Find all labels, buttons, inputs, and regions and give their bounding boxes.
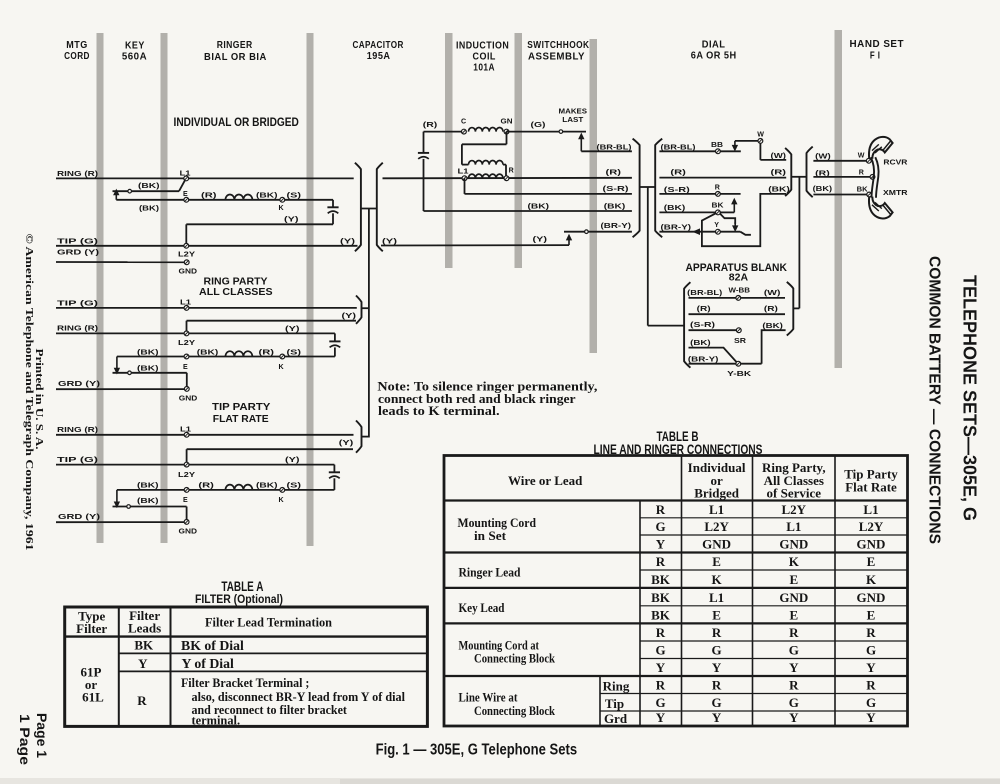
svg-text:Page 1: Page 1: [34, 713, 49, 759]
terminal Y-BK apparatus: [727, 361, 762, 378]
svg-text:BK: BK: [857, 185, 869, 193]
svg-text:R: R: [656, 678, 666, 693]
wire TIP circuit 2: [56, 307, 357, 309]
svg-text:terminal.: terminal.: [192, 713, 241, 728]
svg-text:INDIVIDUAL OR BRIDGED: INDIVIDUAL OR BRIDGED: [174, 117, 299, 129]
svg-text:(BR-BL): (BR-BL): [597, 143, 633, 152]
terminal BB dial: [711, 141, 723, 154]
svg-text:(BK): (BK): [528, 201, 550, 210]
table B header texts: [508, 460, 898, 500]
wire key black lead upper circuit 1: [113, 181, 185, 192]
svg-text:R: R: [137, 693, 147, 708]
wire (S-R) lead: [465, 193, 632, 195]
wire (S-R) dial: [659, 193, 740, 195]
svg-text:(R): (R): [670, 168, 686, 177]
dial right bracket: [785, 148, 791, 196]
svg-text:BK: BK: [651, 590, 671, 605]
table A row lines: [65, 637, 428, 672]
capacitor lead and ringer capacitor circuit 1: [327, 200, 338, 225]
note text: [377, 379, 597, 419]
wire E to K circuit 2: [117, 356, 335, 358]
terminal K with (S) circuit 2: [279, 347, 302, 371]
svg-text:Y: Y: [138, 656, 148, 671]
apparatus blank left bracket: [684, 282, 690, 368]
wire (BR-BL) dial: [659, 150, 740, 152]
svg-text:R: R: [656, 502, 666, 517]
svg-text:(BK): (BK): [137, 347, 159, 356]
wire GRD circuit 2: [56, 388, 187, 390]
ringer coil circuit 2: [225, 351, 252, 356]
svg-text:Y: Y: [866, 710, 876, 725]
svg-text:RING PARTY: RING PARTY: [204, 277, 269, 288]
key moving contact arrow circuit 3: [116, 490, 118, 504]
svg-text:CAPACITOR: CAPACITOR: [352, 40, 403, 51]
svg-text:R: R: [866, 678, 876, 693]
svg-text:(R): (R): [201, 191, 217, 200]
svg-text:(R): (R): [423, 120, 438, 129]
switchhook moving contact arrow on Y lead: [568, 238, 570, 245]
svg-text:MTG: MTG: [66, 40, 87, 51]
handset handle: [871, 157, 879, 198]
table B column lines: [600, 456, 835, 727]
svg-text:Wire or Lead: Wire or Lead: [508, 473, 583, 488]
svg-text:Leads: Leads: [128, 620, 161, 635]
svg-text:(BK): (BK): [813, 184, 833, 193]
svg-text:E: E: [183, 363, 188, 371]
terminal W dial: [757, 131, 764, 144]
svg-text:RCVR: RCVR: [883, 158, 908, 167]
svg-text:L1: L1: [786, 519, 801, 534]
svg-text:E: E: [183, 190, 188, 198]
svg-text:GND: GND: [779, 590, 808, 605]
svg-text:6A OR 5H: 6A OR 5H: [691, 50, 737, 61]
capacitor 195A common bar and riser: [361, 209, 377, 438]
svg-text:(R): (R): [764, 304, 779, 313]
svg-text:SR: SR: [734, 337, 746, 345]
svg-text:SWITCHHOOK: SWITCHHOOK: [527, 40, 589, 51]
table A titles: [195, 579, 283, 606]
svg-text:RING (R): RING (R): [57, 324, 99, 333]
terminal L2Y circuit 3: [178, 462, 195, 479]
svg-text:(BK): (BK): [137, 363, 159, 372]
svg-text:Y: Y: [714, 221, 719, 229]
svg-text:61L: 61L: [82, 690, 104, 705]
svg-text:GND: GND: [702, 537, 731, 552]
svg-text:R: R: [712, 678, 722, 693]
wire (BK) lead: [424, 210, 632, 212]
table B data cells: [651, 502, 885, 725]
svg-text:C: C: [461, 117, 466, 125]
handset receiver hatching: [872, 144, 882, 153]
wire (BR-Y) dial: [659, 231, 740, 233]
svg-text:GND: GND: [857, 537, 886, 552]
svg-text:Y: Y: [789, 660, 799, 675]
svg-text:L2Y: L2Y: [178, 471, 195, 479]
wire (BK) right with drop apparatus: [762, 330, 786, 364]
contact circle key circuit 1: [128, 189, 132, 193]
dial pulse contact arrow: [720, 199, 736, 213]
svg-text:CORD: CORD: [64, 51, 90, 62]
svg-text:ASSEMBLY: ASSEMBLY: [528, 52, 585, 63]
svg-text:W-BB: W-BB: [729, 286, 751, 294]
column header DIAL 6A OR 5H: [691, 39, 737, 61]
contact circle key circuit 2: [128, 371, 132, 375]
table A rows text: [81, 638, 406, 728]
collect bracket circuit 3: [356, 421, 369, 453]
svg-text:Y: Y: [712, 710, 722, 725]
svg-text:of Service: of Service: [767, 485, 822, 500]
svg-text:in Set: in Set: [474, 528, 507, 543]
svg-text:(Y): (Y): [339, 438, 354, 447]
ringer coil circuit 3: [225, 485, 252, 490]
svg-text:G: G: [655, 643, 665, 658]
title RING PARTY ALL CLASSES: [199, 277, 273, 299]
wire RING through induction coil: [383, 177, 632, 180]
svg-text:Filter: Filter: [76, 621, 107, 636]
terminal W handset: [858, 151, 871, 163]
svg-text:ALL CLASSES: ALL CLASSES: [199, 287, 273, 298]
wire W to (W) lead: [760, 143, 786, 160]
svg-text:(Y): (Y): [342, 311, 357, 320]
handset F1 receiver horn: [869, 137, 893, 159]
svg-text:Connecting Block: Connecting Block: [474, 650, 556, 665]
dial left bracket: [655, 139, 662, 238]
svg-text:(R): (R): [697, 304, 712, 313]
terminal GND circuit 2: [179, 387, 198, 403]
capacitor 195A right bracket: [377, 163, 383, 252]
svg-text:GND: GND: [179, 268, 198, 276]
terminal R induction coil: [504, 167, 514, 181]
table B group labels: [458, 515, 630, 726]
svg-text:R: R: [859, 168, 864, 176]
svg-text:Y: Y: [656, 660, 666, 675]
wire E to K circuit 1: [116, 199, 333, 201]
svg-text:INDUCTION: INDUCTION: [456, 40, 509, 51]
wire L1 down to S-R lead: [464, 178, 466, 194]
svg-text:(Y): (Y): [340, 236, 356, 245]
svg-text:(BK): (BK): [138, 181, 160, 190]
svg-text:(R): (R): [259, 347, 275, 356]
svg-text:195A: 195A: [367, 51, 391, 62]
terminal W-BB apparatus: [729, 286, 751, 300]
svg-text:K: K: [866, 572, 877, 587]
wire (Y) circuit 1: [186, 224, 333, 246]
svg-text:G: G: [655, 519, 665, 534]
wire key lower lead circuit 3: [113, 507, 187, 522]
svg-text:Ring: Ring: [603, 678, 630, 693]
svg-text:KEY: KEY: [125, 40, 145, 51]
svg-text:BK: BK: [134, 638, 154, 653]
svg-text:Connecting Block: Connecting Block: [474, 703, 556, 718]
svg-text:K: K: [279, 204, 285, 212]
svg-text:(S): (S): [287, 347, 302, 356]
svg-text:DIAL: DIAL: [702, 39, 726, 50]
svg-text:BK of Dial: BK of Dial: [181, 638, 244, 653]
dial BK to Y-BK return path: [702, 194, 786, 246]
svg-text:R: R: [789, 625, 799, 640]
svg-text:LAST: LAST: [562, 116, 584, 124]
apparatus blank right bracket: [787, 282, 794, 336]
svg-text:L1: L1: [709, 502, 724, 517]
svg-text:560A: 560A: [122, 51, 147, 62]
wire (R) apparatus: [689, 313, 786, 315]
svg-text:(R): (R): [606, 168, 622, 177]
svg-text:K: K: [712, 572, 723, 587]
wire (R) handset: [813, 176, 872, 178]
handset F1 transmitter horn: [869, 197, 893, 219]
svg-text:E: E: [712, 608, 721, 623]
svg-text:(Y): (Y): [533, 235, 548, 244]
wire (R) to C with capacitor branch: [424, 132, 464, 153]
svg-text:BIAL OR BIA: BIAL OR BIA: [204, 52, 267, 63]
svg-text:GND: GND: [857, 590, 886, 605]
svg-text:(W): (W): [815, 151, 831, 160]
terminal C induction coil: [461, 117, 466, 134]
svg-text:E: E: [712, 554, 721, 569]
switchhook collect bracket: [633, 139, 640, 238]
svg-text:R: R: [715, 184, 720, 192]
winding 2 link GN: [462, 132, 507, 165]
svg-text:(BK): (BK): [768, 185, 790, 194]
wire (BR-Y) stub with contact circle: [564, 230, 632, 234]
svg-text:Y: Y: [866, 660, 876, 675]
svg-text:(BK): (BK): [197, 347, 219, 356]
svg-text:G: G: [866, 643, 876, 658]
svg-text:(R): (R): [198, 481, 214, 490]
wire (BR-BL) to W-BB apparatus: [689, 297, 786, 299]
svg-text:(S-R): (S-R): [603, 184, 630, 193]
wire TIP circuit 1: [56, 245, 358, 247]
terminal R dial: [715, 184, 721, 197]
svg-text:RING (R): RING (R): [57, 169, 99, 178]
svg-text:W: W: [858, 151, 865, 159]
svg-text:G: G: [712, 643, 722, 658]
terminal L1 circuit 2: [180, 298, 191, 310]
svg-text:R: R: [656, 554, 666, 569]
key moving contact arrow circuit 1: [115, 193, 117, 200]
svg-text:(S): (S): [287, 191, 302, 200]
terminal GND circuit 3: [179, 520, 198, 536]
svg-text:Filter Bracket Terminal ;: Filter Bracket Terminal ;: [181, 675, 309, 690]
terminal BK handset: [857, 185, 872, 197]
wire key lower lead circuit 2: [113, 373, 187, 389]
svg-text:L1: L1: [863, 502, 878, 517]
title APPARATUS BLANK 82A: [685, 262, 787, 284]
svg-text:(BK): (BK): [256, 191, 278, 200]
svg-text:(BR-BL): (BR-BL): [687, 288, 723, 297]
title TIP PARTY FLAT RATE: [212, 402, 271, 425]
column header RINGER BIAL OR BIA: [204, 40, 267, 63]
induction coil winding 3 L1 to R: [469, 174, 503, 178]
svg-text:K: K: [279, 496, 285, 504]
svg-text:Y of Dial: Y of Dial: [182, 656, 235, 671]
svg-text:HAND SET: HAND SET: [850, 39, 905, 50]
table A frame: [65, 607, 428, 726]
svg-text:F I: F I: [870, 51, 880, 62]
svg-text:R: R: [866, 625, 876, 640]
svg-text:E: E: [183, 496, 188, 504]
svg-text:FLAT RATE: FLAT RATE: [213, 414, 269, 425]
svg-text:(Y): (Y): [285, 455, 300, 464]
terminal L1 circuit 3: [180, 425, 191, 437]
svg-text:Filter Lead Termination: Filter Lead Termination: [205, 615, 333, 630]
svg-text:(BK): (BK): [256, 481, 278, 490]
svg-text:Y: Y: [656, 710, 666, 725]
terminal L1 circuit 1: [180, 170, 191, 181]
svg-text:(BK): (BK): [664, 203, 686, 212]
svg-text:Grd: Grd: [604, 711, 628, 726]
terminal E circuit 2: [183, 354, 189, 371]
svg-text:(Y): (Y): [285, 324, 300, 333]
winding 2 to R terminal link: [503, 165, 506, 179]
svg-text:K: K: [789, 554, 800, 569]
svg-text:BB: BB: [711, 141, 723, 149]
column header MTG CORD: [64, 40, 90, 62]
ringer capacitor circuit 3: [329, 465, 340, 490]
svg-text:(BR-Y): (BR-Y): [601, 221, 632, 230]
svg-text:(Y): (Y): [382, 236, 398, 245]
terminal Y dial: [714, 221, 720, 234]
wire TIP resumes right of capacitor: [381, 244, 569, 246]
wire TIP circuit 3: [56, 464, 334, 466]
capacitor 195A left bracket: [355, 163, 361, 252]
svg-text:(BK): (BK): [762, 321, 783, 330]
handset left bracket: [807, 147, 813, 198]
terminal E circuit 3: [183, 488, 189, 505]
svg-text:Ringer Lead: Ringer Lead: [459, 564, 522, 579]
svg-text:(BK): (BK): [137, 481, 159, 490]
svg-text:(BK): (BK): [604, 201, 626, 210]
svg-text:G: G: [789, 643, 799, 658]
capacitor 195A unit on R lead: [418, 153, 429, 211]
svg-text:82A: 82A: [729, 273, 748, 284]
svg-text:L1: L1: [458, 168, 469, 176]
apparatus column separator bars: [97, 30, 843, 546]
svg-text:COMMON BATTERY — CONNECTIONS: COMMON BATTERY — CONNECTIONS: [926, 256, 943, 544]
table A column lines: [119, 607, 171, 726]
wire (BR-Y) apparatus: [689, 363, 737, 365]
table B row lines: [444, 501, 908, 712]
svg-text:MAKES: MAKES: [559, 108, 588, 116]
svg-text:BK: BK: [651, 608, 671, 623]
terminal L2Y circuit 2: [178, 331, 195, 347]
svg-text:Printed in U. S. A.: Printed in U. S. A.: [33, 349, 45, 450]
wire E to K circuit 3: [117, 489, 335, 491]
svg-text:TIP (G): TIP (G): [57, 298, 99, 307]
svg-text:E: E: [867, 608, 876, 623]
svg-text:(G): (G): [531, 120, 547, 129]
terminal R handset: [859, 168, 875, 179]
svg-text:L2Y: L2Y: [704, 519, 729, 534]
wire (S-R) to SR apparatus: [689, 329, 737, 331]
svg-text:G: G: [866, 695, 876, 710]
svg-text:R: R: [712, 625, 722, 640]
connector between brackets to apparatus blank: [640, 187, 685, 326]
column header SWITCHHOOK ASSEMBLY: [527, 40, 589, 63]
wire (BK) left apparatus: [689, 348, 737, 363]
svg-text:L2Y: L2Y: [178, 251, 195, 259]
svg-text:(R): (R): [771, 168, 787, 177]
svg-text:(BR-Y): (BR-Y): [661, 222, 692, 231]
svg-text:(BR-BL): (BR-BL): [661, 142, 697, 151]
svg-text:RINGER: RINGER: [217, 40, 253, 51]
collect bracket circuit 2: [356, 296, 369, 324]
svg-text:(S): (S): [287, 481, 302, 490]
svg-text:L2Y: L2Y: [859, 519, 884, 534]
svg-text:E: E: [789, 572, 798, 587]
svg-text:E: E: [867, 554, 876, 569]
column header KEY 560A: [122, 40, 147, 62]
svg-text:101A: 101A: [473, 63, 495, 74]
svg-text:(S-R): (S-R): [690, 320, 716, 329]
svg-text:L1: L1: [709, 590, 724, 605]
wire (BK) handset: [813, 194, 869, 196]
wire (R) dial: [659, 177, 786, 179]
svg-text:(BK): (BK): [139, 204, 160, 213]
svg-text:L2Y: L2Y: [178, 339, 195, 347]
svg-text:Y: Y: [656, 537, 666, 552]
svg-text:BK: BK: [712, 201, 725, 209]
svg-text:R: R: [656, 625, 666, 640]
wire RING circuit 2: [56, 332, 335, 334]
dial off-normal spring stub: [740, 232, 751, 235]
terminal GND circuit 1: [179, 260, 198, 276]
svg-text:(W): (W): [764, 288, 781, 297]
terminal L1 induction coil: [458, 168, 469, 181]
svg-text:GRD (Y): GRD (Y): [57, 248, 100, 257]
wire (Y) circuit 2: [187, 321, 357, 334]
svg-text:R: R: [509, 167, 514, 175]
svg-text:TIP PARTY: TIP PARTY: [212, 402, 271, 413]
svg-text:GND: GND: [179, 395, 198, 403]
svg-text:G: G: [789, 695, 799, 710]
svg-text:Tip: Tip: [605, 696, 624, 711]
svg-text:R: R: [789, 678, 799, 693]
terminal K with (S) circuit 3: [279, 481, 302, 504]
svg-text:TELEPHONE SETS—305E, G: TELEPHONE SETS—305E, G: [960, 275, 981, 521]
svg-text:E: E: [789, 608, 798, 623]
terminal SR apparatus: [734, 328, 746, 345]
terminal K with (S) circuit 1: [279, 191, 302, 212]
column header CAPACITOR 195A: [352, 40, 403, 62]
table A header texts: [76, 608, 333, 636]
terminal GN induction coil: [501, 117, 513, 134]
svg-text:Fig. 1 — 305E, G Telephone Set: Fig. 1 — 305E, G Telephone Sets: [376, 741, 577, 758]
svg-text:(BR-Y): (BR-Y): [688, 354, 719, 363]
svg-text:GND: GND: [179, 528, 198, 536]
svg-text:TIP (G): TIP (G): [57, 455, 99, 464]
wire (BK) dial: [659, 211, 718, 213]
connector dial to handset and apparatus blank right: [791, 177, 806, 309]
terminal E circuit 1: [183, 190, 189, 202]
svg-text:Bridged: Bridged: [694, 485, 740, 500]
ringer capacitor circuit 2: [329, 333, 340, 356]
dial contact arrow to W: [733, 141, 758, 151]
induction coil winding 1 C to GN: [469, 128, 503, 132]
svg-text:FILTER (Optional): FILTER (Optional): [195, 592, 283, 606]
svg-text:(BK): (BK): [137, 496, 159, 505]
page number sidebar: [17, 713, 49, 766]
svg-text:G: G: [655, 695, 665, 710]
svg-text:1 Page: 1 Page: [17, 714, 32, 766]
table B frame: [444, 456, 908, 727]
induction coil winding 2: [469, 161, 503, 165]
label MAKES LAST: [559, 108, 588, 124]
dial off-normal arrowhead: [694, 229, 700, 234]
dial shunt contact arm: [720, 214, 738, 231]
svg-text:(S-R): (S-R): [664, 185, 691, 194]
label (Y) left of capacitor on TIP: [340, 236, 356, 245]
